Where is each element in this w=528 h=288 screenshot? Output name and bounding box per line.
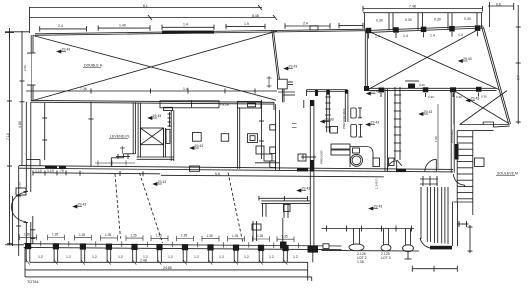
corridor pilaster	[190, 166, 200, 171]
hall A interior dim vertical	[44, 103, 46, 160]
svg-text:1.35: 1.35	[207, 234, 213, 238]
column square 3	[248, 134, 258, 143]
bottom mid room pilasters	[262, 203, 264, 216]
wall x172	[170, 110, 172, 161]
door leaf	[435, 159, 437, 171]
corridor wall	[19, 166, 453, 170]
counter with sink	[350, 147, 373, 168]
wall end jog	[273, 102, 275, 110]
svg-text:PREVOIR: PREVOIR	[320, 150, 324, 164]
mid wall ticks	[380, 93, 382, 97]
square lower jog	[281, 89, 283, 102]
fixture rect 2	[351, 125, 357, 138]
svg-text:1.2: 1.2	[168, 255, 173, 259]
svg-text:1.4: 1.4	[403, 34, 408, 38]
svg-text:1.4: 1.4	[458, 33, 463, 37]
dark wall junction	[364, 86, 369, 91]
svg-text:2.4: 2.4	[303, 22, 308, 26]
svg-text:0.30: 0.30	[419, 83, 425, 87]
hall B right slant wall	[484, 27, 511, 124]
small box left	[389, 158, 395, 166]
svg-text:1.10: 1.10	[47, 169, 54, 173]
sink circle	[351, 154, 363, 166]
right dim small	[457, 223, 469, 225]
right shaft strips	[426, 187, 428, 242]
hall B column 1	[366, 28, 372, 34]
bottom dim line 2	[25, 269, 308, 271]
window bay dim 2	[98, 27, 150, 29]
hall B cross brace	[369, 32, 499, 90]
ticked jamb	[169, 112, 171, 127]
svg-text:1.4: 1.4	[430, 33, 435, 37]
level marker C	[190, 146, 194, 149]
counter notch	[373, 158, 380, 167]
hall B column 4	[449, 26, 455, 32]
hall B top wall	[366, 26, 484, 31]
window bay dim 4	[226, 26, 265, 28]
colonnade dim line	[322, 228, 415, 230]
svg-text:1.35: 1.35	[282, 234, 288, 238]
svg-text:SOULEVE.M: SOULEVE.M	[497, 172, 518, 176]
svg-text:PREVOIR RES: PREVOIR RES	[342, 108, 346, 129]
stair curve	[454, 174, 465, 185]
jog dim cluster	[95, 162, 135, 164]
left dim vertical x9.5	[9, 33, 11, 245]
dashed sight line 2	[140, 173, 163, 243]
cluster wall x386	[384, 89, 386, 172]
dark fixture	[330, 127, 338, 134]
cluster top corner	[278, 91, 295, 93]
bottom dim line 3	[25, 276, 312, 278]
wall jog at corridor	[26, 159, 40, 161]
hatched shaft	[140, 128, 163, 145]
column square 1	[193, 133, 202, 142]
hall A top wall dark segment	[162, 31, 214, 34]
small column top	[278, 79, 288, 89]
cluster wall x346	[344, 90, 346, 122]
level marker D	[153, 182, 157, 185]
bottom-left corner tick line	[5, 244, 24, 246]
level marker I	[419, 112, 423, 115]
level marker J	[366, 123, 370, 126]
window bay dim 6	[339, 25, 363, 27]
staircase	[456, 131, 458, 202]
cluster wall x277	[275, 110, 277, 170]
svg-text:29.43: 29.43	[302, 187, 311, 191]
svg-text:1.2: 1.2	[38, 255, 43, 259]
svg-text:1.35: 1.35	[357, 260, 364, 264]
right structure right wall	[452, 202, 454, 247]
svg-text:0.30: 0.30	[376, 19, 383, 23]
wall below cluster x312	[309, 172, 311, 246]
bottom mid verticals	[282, 218, 284, 245]
cluster wall x397	[394, 87, 396, 160]
right dim vertical	[469, 225, 471, 253]
lower-right cross area	[453, 91, 455, 125]
door side box	[16, 188, 26, 195]
colonnade baseline	[322, 249, 420, 252]
cluster wall x327	[326, 90, 328, 133]
svg-text:8.1: 8.1	[143, 4, 148, 8]
svg-text:29.43: 29.43	[62, 48, 71, 52]
svg-text:24.85: 24.85	[163, 266, 172, 270]
small dim cluster	[420, 178, 438, 180]
svg-text:1.35: 1.35	[232, 234, 238, 238]
svg-text:1.10: 1.10	[35, 169, 42, 173]
bottom wall	[24, 244, 342, 246]
level marker L	[284, 67, 288, 70]
tree symbol	[403, 245, 414, 252]
window bay dim 3	[162, 26, 214, 28]
svg-text:PASSREL: PASSREL	[450, 129, 454, 143]
left bottom dim vertical	[12, 196, 14, 246]
shaft left wall	[137, 103, 139, 158]
counter small rect	[353, 148, 360, 153]
dim extension pairs	[364, 13, 366, 29]
svg-text:LOT 3: LOT 3	[381, 256, 391, 260]
table strips	[331, 144, 350, 149]
svg-text:2.4: 2.4	[58, 24, 63, 28]
svg-text:2.96: 2.96	[23, 65, 27, 71]
svg-text:1.35: 1.35	[24, 233, 30, 237]
svg-text:1.35: 1.35	[181, 234, 187, 238]
svg-text:1.2: 1.2	[66, 255, 71, 259]
shaft right wall	[163, 128, 165, 158]
mid wall column c	[450, 87, 456, 92]
svg-text:8.48: 8.48	[252, 14, 259, 18]
svg-text:1.2: 1.2	[293, 255, 298, 259]
opera dark mark	[408, 84, 415, 89]
partition wall x134	[132, 102, 134, 154]
top-left dimension vertical	[29, 7, 31, 33]
hall A right slant wall	[272, 30, 278, 79]
wall bottom jog	[397, 160, 402, 166]
hall A left wall ticks	[27, 52, 36, 54]
bottom mid room wall	[261, 200, 310, 202]
svg-text:1.35: 1.35	[156, 234, 162, 238]
dashed sight line 3	[228, 173, 243, 244]
notch step	[483, 122, 510, 127]
bottom small dim	[412, 268, 457, 270]
svg-text:29.43: 29.43	[325, 118, 334, 122]
shaft door	[166, 129, 170, 143]
svg-text:29.43: 29.43	[153, 114, 162, 118]
svg-text:1.2: 1.2	[244, 255, 249, 259]
svg-text:1.4: 1.4	[183, 87, 188, 91]
right shaft left wall	[420, 187, 422, 239]
svg-text:9.7: 9.7	[517, 75, 521, 80]
mid wall column a	[379, 88, 385, 93]
stair block wall	[450, 91, 452, 173]
bottom dim line 1	[30, 261, 308, 263]
svg-text:1.245 D: 1.245 D	[375, 178, 379, 189]
svg-text:29.43: 29.43	[158, 180, 167, 184]
top-right dim line 1	[363, 8, 483, 10]
fixture ticks	[358, 107, 362, 109]
svg-text:7.48: 7.48	[409, 5, 416, 9]
junction column large	[308, 245, 319, 252]
small box above corridor	[298, 154, 306, 161]
corridor wall dark segment 1	[45, 166, 57, 169]
bottom mid dim line	[259, 197, 308, 199]
mid wall right	[365, 87, 497, 89]
level marker K	[369, 207, 373, 210]
svg-text:29.43: 29.43	[195, 144, 204, 148]
corridor wall dark segment 4	[396, 169, 406, 172]
hall B column 2	[393, 27, 399, 33]
colonnade stems	[353, 229, 355, 245]
level marker A	[57, 50, 61, 53]
hall B column 5	[475, 25, 481, 31]
top-right dim line 2	[363, 12, 483, 14]
svg-text:0.30: 0.30	[464, 17, 471, 21]
svg-text:2.48: 2.48	[140, 259, 147, 263]
svg-text:1.35: 1.35	[131, 233, 137, 237]
top dimension line 2	[30, 17, 276, 19]
level marker M	[321, 120, 325, 123]
svg-text:1.2: 1.2	[219, 255, 224, 259]
svg-text:0.6: 0.6	[496, 3, 501, 7]
stair landing line	[473, 130, 494, 132]
svg-text:29.43: 29.43	[371, 90, 380, 94]
shaft bottom wall	[137, 156, 174, 158]
left dim vertical x22	[21, 31, 23, 166]
hall A cross brace	[33, 36, 276, 101]
svg-text:29.43: 29.43	[463, 57, 472, 61]
hall B column 3	[421, 27, 427, 32]
bay dims above columns	[20, 235, 299, 249]
svg-text:29.43: 29.43	[371, 121, 380, 125]
level marker F	[73, 205, 77, 208]
svg-text:1.2: 1.2	[269, 255, 274, 259]
cluster wall tabs	[270, 125, 276, 130]
svg-text:7.10: 7.10	[6, 133, 10, 140]
svg-text:5.6: 5.6	[215, 172, 220, 176]
cluster wall B	[307, 89, 348, 91]
bottom columns dark	[25, 243, 31, 249]
svg-text:29.43: 29.43	[471, 97, 480, 101]
column pad 2	[381, 245, 391, 251]
svg-text:.70: .70	[59, 169, 64, 173]
svg-text:TOTAL: TOTAL	[27, 280, 39, 284]
hall A bottom wall	[31, 100, 274, 102]
jog dim vertical	[122, 146, 124, 154]
level marker E	[367, 92, 371, 95]
small dim near corridor	[116, 156, 130, 158]
cluster wall x310	[309, 100, 311, 172]
toilet 1	[256, 146, 264, 154]
bottom furniture cluster	[252, 221, 254, 241]
svg-text:1.2: 1.2	[118, 255, 123, 259]
hall A left wall	[30, 35, 32, 53]
svg-text:0.30: 0.30	[456, 95, 462, 99]
svg-text:29.43: 29.43	[78, 203, 87, 207]
beam band 2	[238, 101, 262, 108]
svg-text:1.2: 1.2	[92, 255, 97, 259]
column dim legs	[25, 249, 27, 262]
column pad small rect	[323, 244, 329, 249]
svg-text:1.2: 1.2	[143, 255, 148, 259]
level marker H	[466, 99, 470, 102]
svg-text:1.9: 1.9	[244, 22, 249, 26]
dim vertical x32.8	[32, 216, 34, 244]
mid wall column b	[423, 87, 429, 92]
beam band 1	[160, 101, 219, 108]
hall B column ticks	[368, 34, 370, 39]
svg-text:1.2: 1.2	[194, 255, 199, 259]
left room dim vertical	[261, 100, 263, 159]
column pad 1	[349, 244, 364, 251]
svg-text:1.40: 1.40	[119, 23, 126, 27]
svg-text:DOUBLE H.: DOUBLE H.	[84, 64, 103, 68]
svg-text:4.85: 4.85	[18, 121, 22, 128]
stair bottom	[454, 201, 473, 203]
far right dim vertical	[517, 5, 519, 124]
dashed sight line 1	[115, 174, 121, 239]
svg-text:1.35: 1.35	[79, 233, 85, 237]
toilet wall	[255, 162, 279, 164]
svg-text:Fut.ble: Fut.ble	[220, 103, 230, 107]
door arc right	[425, 159, 437, 171]
window bay dim 5	[285, 25, 330, 27]
svg-text:1.35: 1.35	[52, 233, 58, 237]
fixture rect 1	[351, 108, 356, 118]
svg-text:29.43: 29.43	[374, 205, 383, 209]
left corner tick	[5, 32, 14, 34]
hall B left wall	[364, 31, 366, 88]
stair side rect	[475, 158, 485, 167]
room dim extension	[437, 104, 439, 169]
left dim vertical x18.7	[18, 166, 20, 256]
svg-text:0.30: 0.30	[434, 18, 441, 22]
dark band bottom	[430, 246, 452, 250]
svg-text:1.4: 1.4	[183, 23, 188, 27]
svg-text:29.43: 29.43	[289, 65, 298, 69]
window bay dim 1	[40, 28, 87, 30]
svg-text:1.50: 1.50	[434, 136, 438, 142]
svg-text:0.30: 0.30	[405, 18, 412, 22]
svg-text:29.43: 29.43	[424, 110, 433, 114]
svg-text:1.35: 1.35	[105, 233, 111, 237]
partition wall x91	[90, 102, 92, 166]
corridor wall dark segment 2	[59, 166, 66, 169]
level marker N	[297, 189, 301, 192]
toilet 2	[264, 154, 272, 161]
stair dark bar	[455, 144, 459, 160]
svg-text:1.35: 1.35	[257, 234, 263, 238]
left exterior wall lower	[25, 102, 27, 192]
svg-text:0.30: 0.30	[481, 95, 487, 99]
svg-text:LEVEND.PL: LEVEND.PL	[110, 135, 130, 139]
column square 2	[221, 134, 229, 142]
right shaft curve bottom	[420, 238, 452, 249]
window detail rect	[310, 26, 318, 30]
top-right corner dim	[488, 5, 514, 7]
top dimension line 1	[30, 7, 263, 9]
bottom dim left verticals	[24, 247, 26, 277]
level marker G	[459, 59, 463, 62]
door arc mid	[387, 161, 397, 171]
small wall jog	[124, 153, 136, 155]
svg-text:1.4: 1.4	[375, 35, 380, 39]
hall A top wall	[35, 29, 366, 34]
svg-text:1.60: 1.60	[18, 182, 22, 188]
corridor dim line	[33, 173, 161, 174]
level marker B	[148, 116, 152, 119]
interior dimension line y91	[26, 90, 277, 92]
corridor wall dark segment 3	[297, 168, 308, 171]
svg-text:7.36: 7.36	[80, 87, 87, 91]
mid wall column d	[476, 87, 482, 92]
double door	[12, 193, 27, 208]
wc dim lines	[303, 100, 305, 108]
room partition wall x238	[237, 107, 239, 169]
svg-text:0.30: 0.30	[428, 95, 434, 99]
corridor lower face line	[161, 175, 384, 177]
